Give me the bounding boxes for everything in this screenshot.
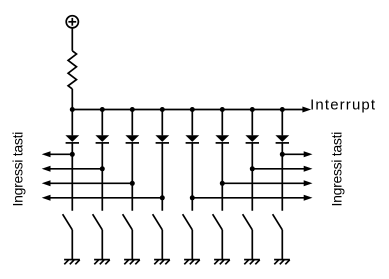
- wire switch S6 to ground: [221, 230, 223, 259]
- wire diode D3 to switch S3: [131, 143, 133, 211]
- wire diode D7 to switch S7: [251, 143, 253, 211]
- wire switch S8 to ground: [281, 230, 283, 259]
- wire resistor to bus: [71, 89, 73, 110]
- wire bus to diode D1: [71, 110, 73, 136]
- diode D2: [95, 135, 109, 143]
- wire diode D2 to switch S2: [101, 143, 103, 211]
- arrowhead key input left row 2: [42, 166, 51, 172]
- power supply V+: [66, 16, 78, 28]
- wire diode D4 to switch S4: [161, 143, 163, 211]
- diode D7: [245, 135, 259, 143]
- ground col6: [214, 260, 230, 265]
- wire bus to diode D3: [131, 110, 133, 136]
- ground col3: [124, 260, 140, 265]
- switch S8: [273, 214, 283, 230]
- diode D3: [125, 135, 139, 143]
- node key/column junction col4: [160, 195, 165, 200]
- node key/column junction col6: [220, 181, 225, 186]
- arrowhead key input right row 4: [304, 195, 313, 201]
- arrowhead key input left row 1: [42, 151, 51, 157]
- wire switch S1 to ground: [71, 230, 73, 259]
- wire diode D5 to switch S5: [191, 143, 193, 211]
- ground col2: [94, 260, 110, 265]
- node key/column junction col3: [130, 181, 135, 186]
- wire diode D8 to switch S8: [281, 143, 283, 211]
- wire switch S4 to ground: [161, 230, 163, 259]
- ground col7: [244, 260, 260, 265]
- node bus junction col8: [280, 107, 285, 112]
- arrowhead interrupt: [302, 107, 311, 113]
- node bus junction col1: [70, 107, 75, 112]
- ground col8: [274, 260, 290, 265]
- arrowhead key input right row 3: [304, 180, 313, 186]
- node bus junction col4: [160, 107, 165, 112]
- wire bus to diode D4: [161, 110, 163, 136]
- node key/column junction col8: [280, 152, 285, 157]
- wire switch S5 to ground: [191, 230, 193, 259]
- ground col5: [184, 260, 200, 265]
- arrowhead key input left row 4: [42, 195, 51, 201]
- wire key input left row 2: [50, 168, 102, 170]
- wire switch S3 to ground: [131, 230, 133, 259]
- node key/column junction col7: [250, 166, 255, 171]
- node bus junction col3: [130, 107, 135, 112]
- wire bus to diode D7: [251, 110, 253, 136]
- switch S6: [213, 214, 223, 230]
- node bus junction col6: [220, 107, 225, 112]
- node bus junction col7: [250, 107, 255, 112]
- switch S5: [183, 214, 193, 230]
- wire bus to diode D5: [191, 110, 193, 136]
- node bus junction col5: [190, 107, 195, 112]
- ground col1: [64, 260, 80, 265]
- wire switch S2 to ground: [101, 230, 103, 259]
- node key/column junction col2: [100, 166, 105, 171]
- svg-text:Ingressi tasti: Ingressi tasti: [10, 132, 26, 207]
- node key/column junction col5: [190, 195, 195, 200]
- wire key input left row 1: [50, 153, 72, 155]
- wire key input left row 4: [50, 197, 162, 199]
- switch S3: [123, 214, 133, 230]
- arrowhead key input right row 1: [304, 151, 313, 157]
- diode D8: [275, 135, 289, 143]
- wire key input left row 3: [50, 182, 132, 184]
- wire supply to resistor: [71, 28, 73, 51]
- switch S1: [63, 214, 73, 230]
- diode D6: [215, 135, 229, 143]
- arrowhead key input left row 3: [42, 180, 51, 186]
- wire switch S7 to ground: [251, 230, 253, 259]
- wire diode D6 to switch S6: [221, 143, 223, 211]
- node bus junction col2: [100, 107, 105, 112]
- svg-text:Ingressi tasti: Ingressi tasti: [329, 132, 345, 207]
- node key/column junction col1: [70, 152, 75, 157]
- wire key input right row 1: [282, 153, 304, 155]
- diode D1: [65, 135, 79, 143]
- resistor R1: [68, 51, 76, 89]
- ground col4: [154, 260, 170, 265]
- wire key input right row 2: [252, 168, 304, 170]
- svg-text:Interrupt: Interrupt: [310, 96, 376, 113]
- diode D4: [155, 135, 169, 143]
- wire key input right row 4: [192, 197, 304, 199]
- wire key input right row 3: [222, 182, 304, 184]
- wire bus to diode D6: [221, 110, 223, 136]
- switch S4: [153, 214, 163, 230]
- diode D5: [185, 135, 199, 143]
- switch S7: [243, 214, 253, 230]
- wire interrupt bus: [72, 109, 303, 111]
- wire diode D1 to switch S1: [71, 143, 73, 211]
- switch S2: [93, 214, 103, 230]
- arrowhead key input right row 2: [304, 166, 313, 172]
- wire bus to diode D2: [101, 110, 103, 136]
- wire bus to diode D8: [281, 110, 283, 136]
